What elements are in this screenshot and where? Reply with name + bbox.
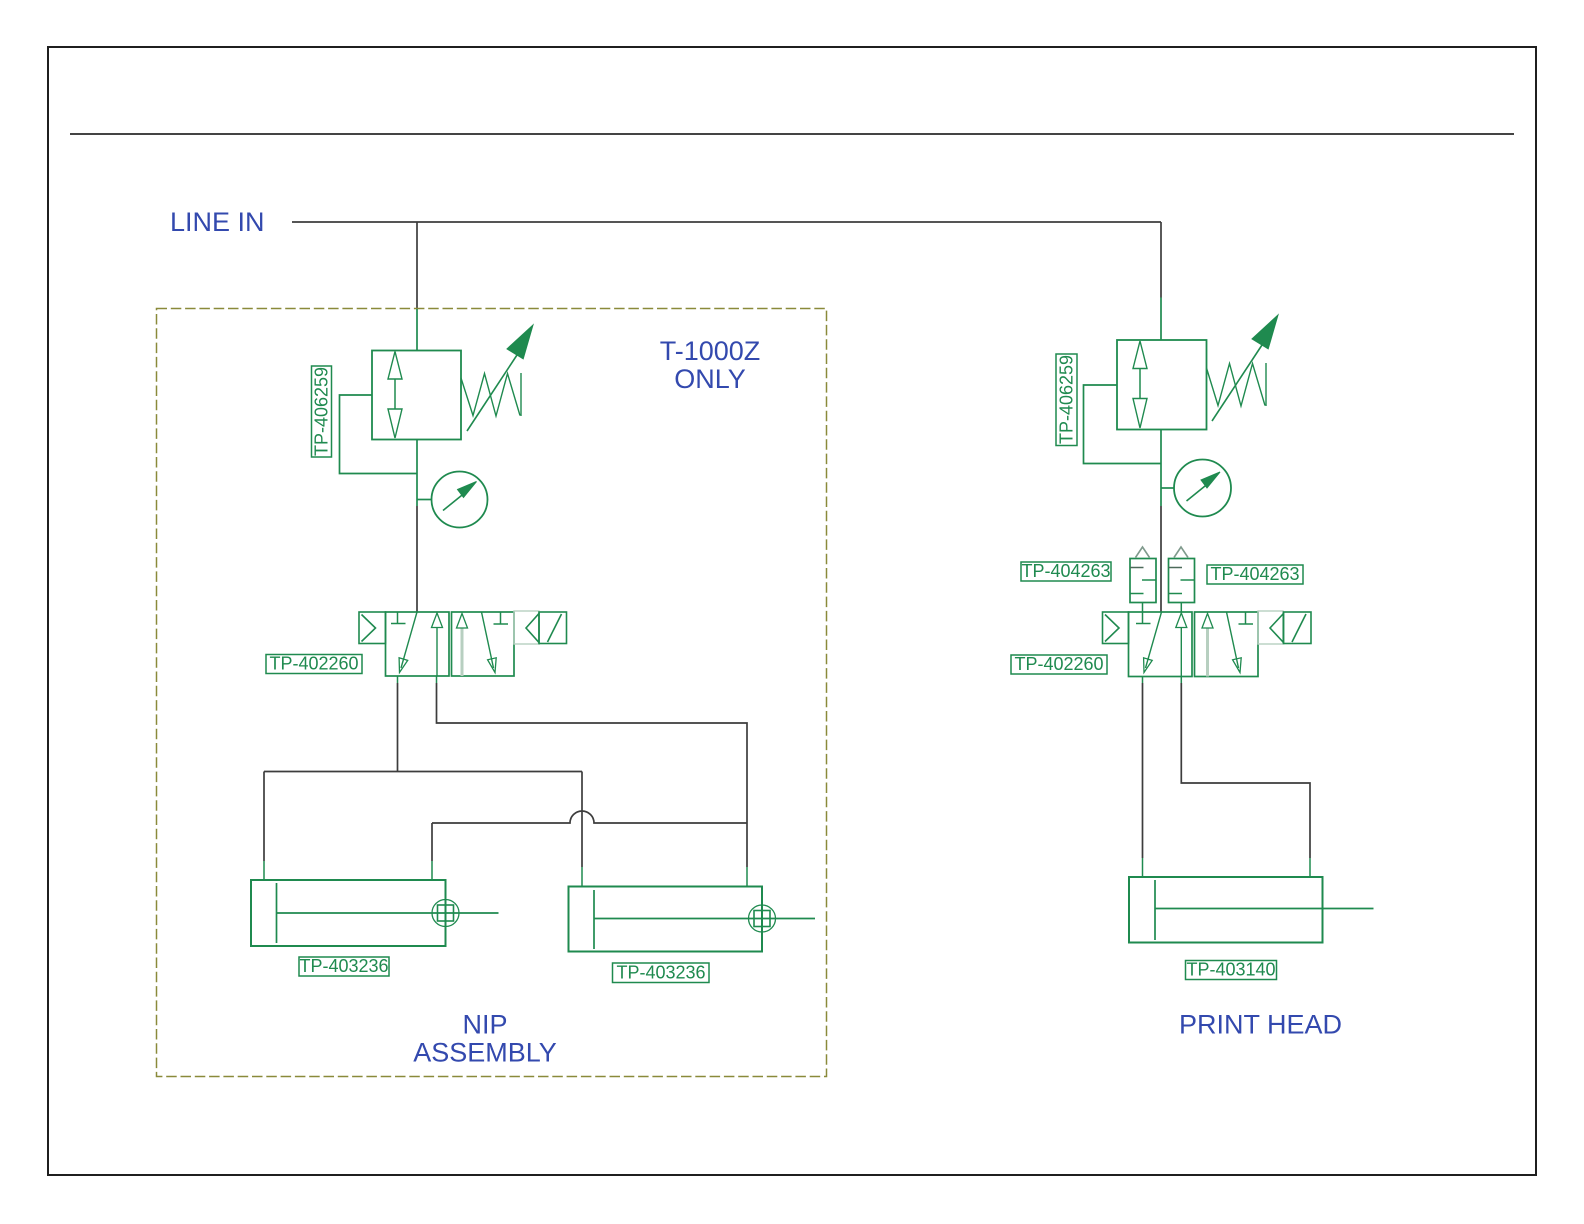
svg-text:TP-406259: TP-406259 <box>1057 355 1077 444</box>
flow control TP-404263 #1 <box>1130 547 1156 612</box>
node LINE IN label <box>170 207 265 237</box>
wire right branch drop to PRINT HEAD regulator <box>1160 222 1162 298</box>
regulator TP-406259 (left) <box>340 309 534 506</box>
label TP-404263 #1 <box>1021 561 1111 581</box>
svg-text:NIP: NIP <box>462 1010 507 1040</box>
regulator TP-406259 (right) <box>1084 298 1279 507</box>
pressure gauge (left) <box>417 472 488 528</box>
valve TP-402260 (left, 5/2) <box>359 611 567 676</box>
svg-text:ONLY: ONLY <box>674 364 746 394</box>
title separator line <box>70 133 1514 135</box>
wire cap-end manifold horizontal <box>264 771 582 773</box>
label TP-406259 (left, rotated) <box>312 366 332 457</box>
wire to cylinder 1 rod end <box>431 823 433 880</box>
wire to cylinder 2 rod end <box>746 823 748 886</box>
wire regulator to valve (left) <box>416 506 418 612</box>
label TP-403236 #2 <box>613 963 710 983</box>
svg-text:TP-403140: TP-403140 <box>1186 960 1275 980</box>
wire rod-end manifold with hop over <box>432 811 747 823</box>
NIP ASSEMBLY dashed boundary box <box>157 309 827 1077</box>
svg-text:TP-403236: TP-403236 <box>616 963 705 983</box>
svg-text:TP-403236: TP-403236 <box>299 956 388 976</box>
wire LINE IN horizontal main <box>292 221 1161 223</box>
wire valve port B down and across (left valve) <box>437 676 748 823</box>
wire left branch drop to NIP regulator <box>416 222 418 309</box>
svg-text:TP-402260: TP-402260 <box>269 654 358 674</box>
cylinder TP-403236 #1 <box>251 880 499 946</box>
valve TP-402260 (right, 5/2) <box>1103 611 1312 677</box>
cylinder TP-403140 <box>1129 877 1374 943</box>
svg-text:ASSEMBLY: ASSEMBLY <box>413 1038 557 1068</box>
label TP-404263 #2 <box>1207 564 1303 584</box>
cylinder TP-403236 #2 <box>569 887 816 952</box>
wire to cylinder 1 cap end <box>263 772 265 881</box>
note T-1000Z ONLY <box>660 336 761 394</box>
svg-text:TP-406259: TP-406259 <box>312 367 332 456</box>
label TP-406259 (right, rotated) <box>1056 354 1077 446</box>
caption PRINT HEAD <box>1179 1010 1342 1040</box>
label TP-403236 #1 <box>299 956 389 976</box>
svg-text:TP-402260: TP-402260 <box>1014 654 1103 674</box>
wire right valve port B to cylinder rod end <box>1181 677 1310 878</box>
svg-text:PRINT HEAD: PRINT HEAD <box>1179 1010 1342 1040</box>
flow control TP-404263 #2 <box>1169 547 1195 612</box>
svg-text:LINE IN: LINE IN <box>170 207 265 237</box>
wire to cylinder 2 cap end <box>581 772 583 887</box>
svg-text:T-1000Z: T-1000Z <box>660 336 761 366</box>
label TP-402260 (right) <box>1011 654 1107 674</box>
pressure gauge (right) <box>1161 460 1231 517</box>
caption NIP ASSEMBLY <box>413 1010 557 1068</box>
label TP-402260 (left) <box>266 654 362 674</box>
wire regulator to valve (right) <box>1160 506 1162 612</box>
wire right valve port A to cylinder cap end <box>1142 677 1144 878</box>
wire valve port A down (left valve) <box>397 676 399 772</box>
svg-text:TP-404263: TP-404263 <box>1021 561 1110 581</box>
svg-text:TP-404263: TP-404263 <box>1210 564 1299 584</box>
label TP-403140 <box>1186 960 1277 980</box>
